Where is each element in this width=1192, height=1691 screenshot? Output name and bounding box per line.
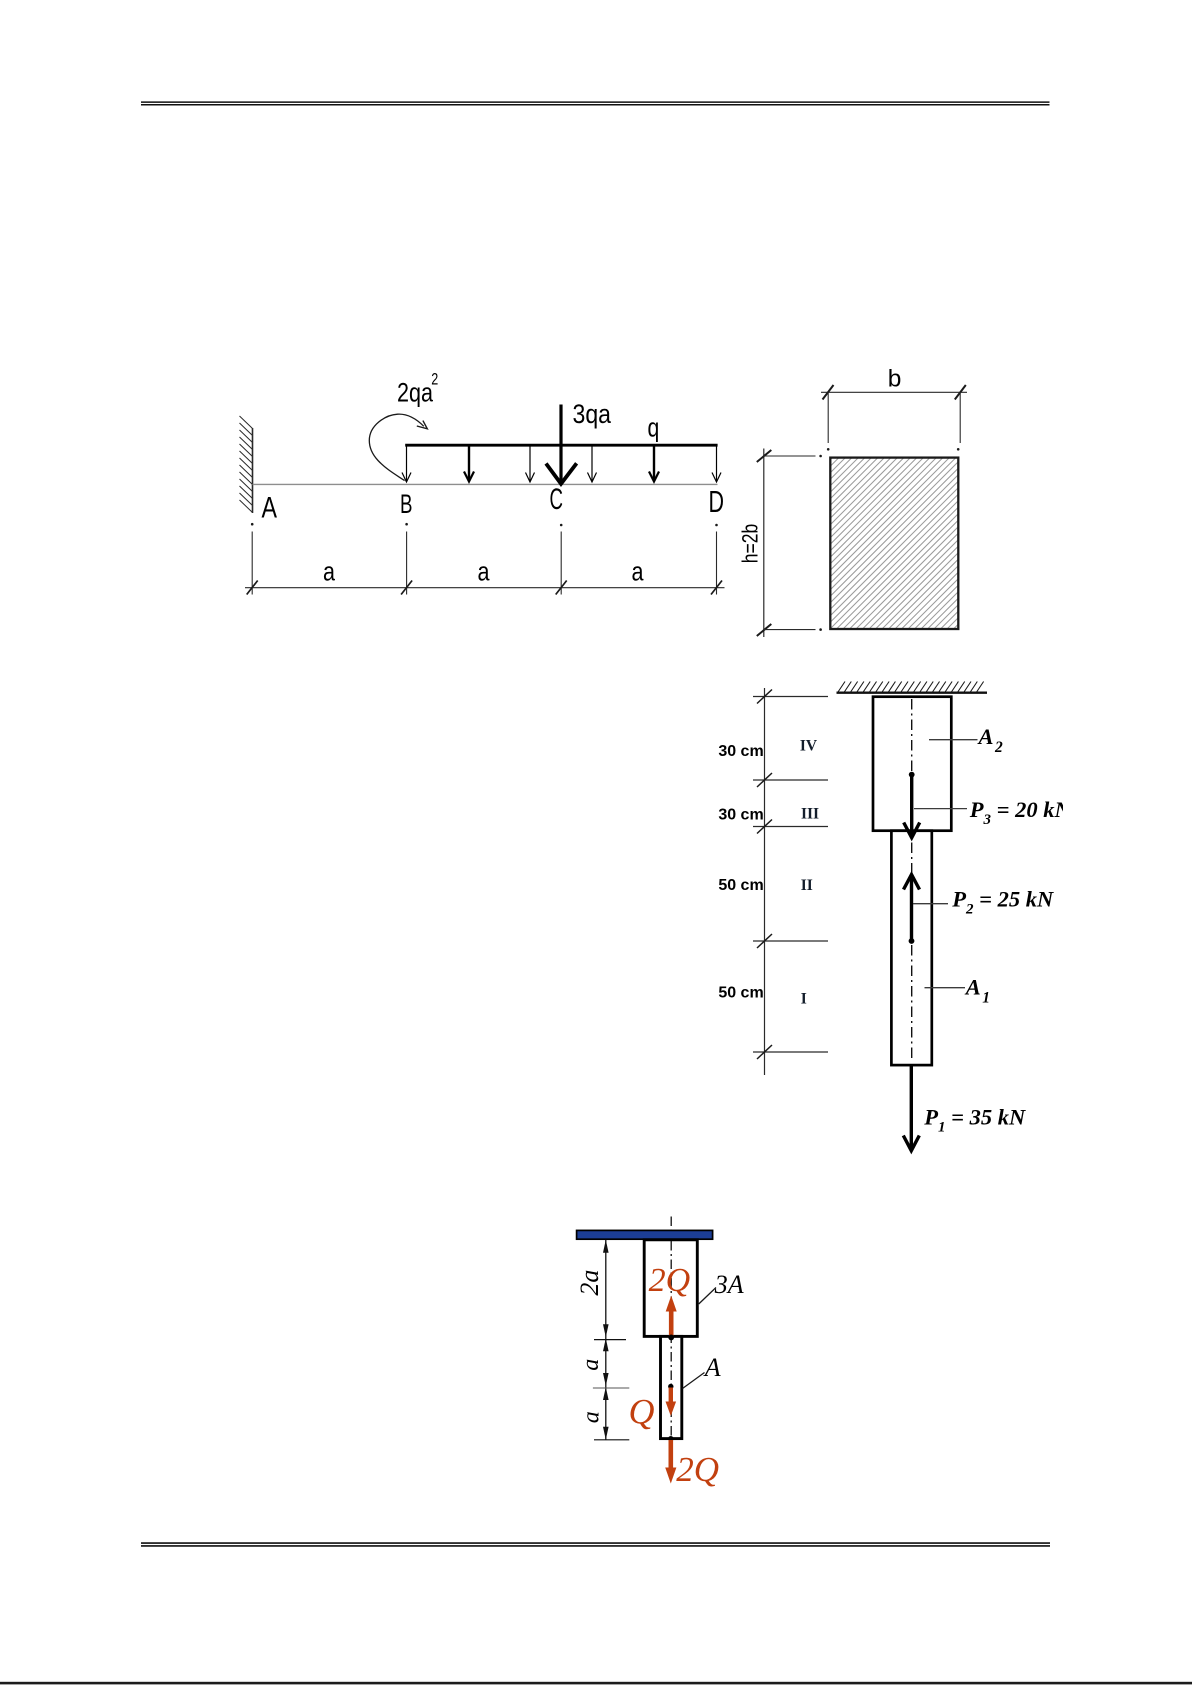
ceiling hatching — [838, 682, 984, 693]
dimension slash ticks — [247, 581, 722, 595]
dim arrowheads — [603, 1240, 609, 1440]
svg-text:B: B — [400, 489, 413, 519]
svg-text:h=2b: h=2b — [737, 524, 762, 564]
svg-text:50 cm: 50 cm — [718, 985, 763, 1002]
bottom double rule — [141, 1543, 1050, 1546]
bottom junction dot — [668, 1436, 673, 1441]
leader to A — [683, 1373, 705, 1389]
b dim slash ticks — [823, 385, 966, 400]
FIGURE 3: stepped bar with loads P1 P2 P3 — [718, 682, 1071, 1151]
svg-text:A: A — [964, 974, 981, 999]
P3 arrow (down) — [904, 776, 920, 838]
moment arrowhead — [417, 421, 428, 429]
redraw axis inside bars — [670, 1241, 672, 1438]
P2 point dot — [909, 938, 915, 944]
svg-text:2a: 2a — [575, 1270, 604, 1296]
svg-text:A: A — [703, 1353, 721, 1382]
dim tick at a/a — [593, 1387, 629, 1389]
b extension lines — [828, 392, 960, 443]
slash marks on dimension line — [757, 690, 772, 1060]
distributed load arrow 5 (thick) — [649, 446, 659, 482]
distributed load arrow 4 — [588, 446, 597, 482]
dimension column vertical line — [764, 688, 766, 1075]
svg-text:C: C — [550, 483, 564, 516]
P2 leader — [913, 903, 948, 905]
centre dash-dot axis — [911, 699, 913, 1062]
upper bar A2 — [873, 697, 951, 831]
dimension tick IV top — [753, 696, 828, 698]
A2 leader — [929, 739, 978, 741]
wall line at A — [252, 428, 254, 513]
top double rule — [141, 102, 1050, 105]
svg-text:b: b — [888, 366, 902, 393]
dimension line a a a — [245, 587, 725, 589]
svg-text:D: D — [709, 485, 725, 519]
point load 3qa arrow at C — [546, 405, 577, 484]
distributed load arrow 3 — [526, 446, 535, 482]
distributed load top line B-D — [405, 444, 717, 447]
beam line A-D — [253, 483, 718, 485]
P1 arrow (down from bar bottom) — [903, 1066, 919, 1151]
svg-text:a: a — [578, 1411, 604, 1423]
svg-text:a: a — [478, 557, 490, 587]
page bottom edge line — [0, 1682, 1192, 1685]
svg-text:III: III — [801, 806, 819, 823]
P2 arrow (up) — [904, 875, 920, 941]
dim tick bottom — [594, 1439, 629, 1441]
svg-text:50 cm: 50 cm — [718, 877, 763, 894]
h dimension line — [763, 449, 765, 638]
svg-text:a: a — [632, 557, 644, 587]
svg-text:A: A — [262, 492, 278, 525]
h dim slash ticks — [757, 450, 772, 636]
svg-text:30 cm: 30 cm — [718, 743, 763, 760]
ceiling line — [837, 692, 988, 694]
dimension vertical line — [605, 1240, 607, 1440]
extension dots above section — [819, 448, 959, 631]
dim tick at 2a/a — [594, 1339, 626, 1341]
svg-text:A: A — [977, 724, 994, 749]
dimension tick II top — [753, 826, 828, 828]
svg-text:Q: Q — [629, 1392, 655, 1432]
dimension tick I top — [753, 940, 828, 942]
FIGURE 2: rectangular cross-section b x 2b — [737, 366, 1192, 836]
extension dots — [251, 523, 718, 526]
svg-text:II: II — [801, 877, 813, 894]
Q down arrow (orange) — [666, 1388, 677, 1417]
dimension tick III top — [753, 779, 828, 781]
lower bar A1 — [891, 831, 931, 1065]
P3 leader — [914, 808, 967, 810]
svg-text:2: 2 — [994, 739, 1003, 756]
junction dot upper — [668, 1335, 674, 1341]
svg-text:IV: IV — [800, 738, 818, 755]
svg-text:2qa: 2qa — [397, 378, 433, 408]
A1 leader — [925, 987, 966, 989]
FIGURE 4: stepped bar with Q loads — [575, 1217, 744, 1490]
svg-text:a: a — [578, 1359, 604, 1371]
upper bar 3A — [644, 1240, 697, 1337]
svg-text:3A: 3A — [714, 1270, 744, 1299]
mid point dot — [668, 1384, 673, 1389]
svg-text:2: 2 — [431, 371, 438, 389]
svg-text:a: a — [323, 557, 335, 587]
P3 point dot — [909, 772, 915, 778]
2Q up arrow (orange) — [666, 1296, 677, 1338]
extension lines below beam — [252, 532, 716, 595]
section rectangle — [830, 458, 958, 629]
2Q bottom arrow (orange) — [665, 1440, 676, 1484]
svg-text:30 cm: 30 cm — [718, 807, 763, 824]
distributed load arrow at B — [402, 446, 411, 482]
svg-text:1: 1 — [982, 990, 990, 1007]
fixed support hatching at A — [240, 416, 253, 513]
h connector lines — [764, 456, 816, 630]
ceiling plate (blue) — [577, 1230, 713, 1239]
svg-text:q: q — [648, 412, 660, 442]
centre dash-dot axis — [670, 1217, 672, 1439]
section hatching — [760, 390, 1192, 836]
b dimension line — [821, 391, 967, 393]
dimension tick bottom — [753, 1051, 828, 1053]
distributed load arrow 2 (thick) — [464, 446, 474, 482]
FIGURE 1: cantilever beam — [240, 371, 725, 595]
lower bar A — [661, 1336, 682, 1438]
leader to 3A — [699, 1288, 716, 1305]
svg-text:2Q: 2Q — [649, 1262, 691, 1299]
svg-text:2Q: 2Q — [676, 1450, 719, 1489]
label P3 = 20 kN (clipped at scan edge) — [969, 797, 1072, 828]
distributed load arrow at D — [712, 446, 721, 482]
svg-text:3qa: 3qa — [573, 399, 612, 429]
svg-text:I: I — [801, 991, 807, 1008]
moment arc 2qa^2 at B — [369, 414, 424, 480]
